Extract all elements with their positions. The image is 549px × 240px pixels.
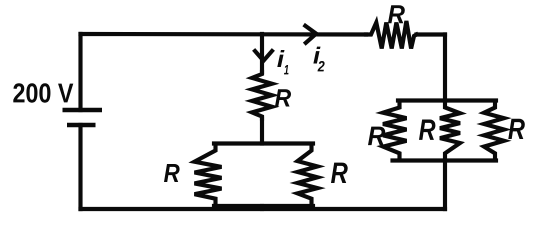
wire: left vertical from top rail to battery [78,34,82,110]
node bar: bank top [398,98,496,102]
resistor R4 (pair right) [298,145,318,204]
label: R of resistor R4 [331,163,348,183]
node bar: bank bottom [393,158,497,162]
wire: middle branch lower (R2 to pair top bar) [260,119,264,144]
node bar: pair bottom [214,204,313,208]
label: i1 subscript 1 [284,65,288,74]
battery negative plate (short) [67,123,96,128]
wire: stub pair bottom bar to bottom rail [260,206,264,209]
label: i2 subscript 2 [318,61,325,71]
label: R of resistor R1 [388,5,405,23]
resistor R5 (bank left) [383,102,407,159]
wire: top rail left segment (battery top to resistor R1) [81,32,367,37]
resistor R7 (bank right) [484,102,504,159]
resistor R2 (middle branch) [252,72,272,119]
wire: left vertical from battery to bottom rail [78,125,82,209]
wire: top rail right segment (R1 to top-right corner) [417,32,446,36]
arrowhead: current i2 (rightward) [305,26,316,43]
node bar: pair top [214,141,313,145]
label: R of resistor R5 [368,127,385,146]
resistor R3 (pair left) [195,145,222,204]
wire: middle branch upper (top rail to R2) [260,34,264,72]
label: source voltage 200 V [13,83,73,102]
label: R of resistor R6 [419,120,435,140]
wire: right vertical drop to resistor bank [443,35,447,101]
resistor R6 (bank middle) [440,102,460,159]
label: R of resistor R3 [164,164,180,182]
battery positive plate (long) [63,108,103,113]
label: R of resistor R7 [508,119,525,139]
label: current i2 [313,47,320,64]
label: current i1 [277,50,284,67]
label: R of resistor R2 [275,89,291,106]
wire: bottom rail [81,207,446,211]
resistor R1 (top horizontal) [366,21,417,49]
arrowhead: current i1 (downward) [255,51,272,61]
wire: bank bottom bar to bottom rail [443,161,447,210]
